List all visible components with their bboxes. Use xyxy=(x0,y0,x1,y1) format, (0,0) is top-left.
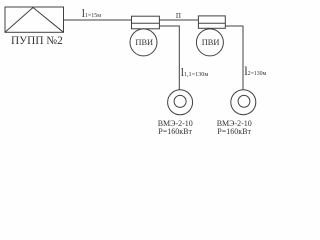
svg-text:Р=160кВт: Р=160кВт xyxy=(158,127,192,136)
svg-text:ПУПП №2: ПУПП №2 xyxy=(11,35,63,47)
starter box ПВИ2 xyxy=(198,16,225,28)
svg-text:Р=160кВт: Р=160кВт xyxy=(217,127,251,136)
wire starter 2 output to motor M2 xyxy=(225,26,243,89)
wire l1: substation to starter 1 xyxy=(64,19,132,21)
svg-text:ПВИ: ПВИ xyxy=(202,38,220,47)
wire starter 1 output to motor M1 xyxy=(159,26,179,90)
wire between starter 1 and starter 2 xyxy=(159,19,198,21)
svg-text:ПВИ: ПВИ xyxy=(135,38,153,47)
starter circle ПВИ2 xyxy=(196,29,223,56)
transformer substation ПУПП №2 xyxy=(5,7,64,32)
svg-text:П: П xyxy=(176,12,181,20)
motor M1 xyxy=(168,90,193,115)
starter box ПВИ1 xyxy=(132,16,160,29)
motor M2 xyxy=(231,90,256,115)
starter circle ПВИ1 xyxy=(130,29,157,56)
